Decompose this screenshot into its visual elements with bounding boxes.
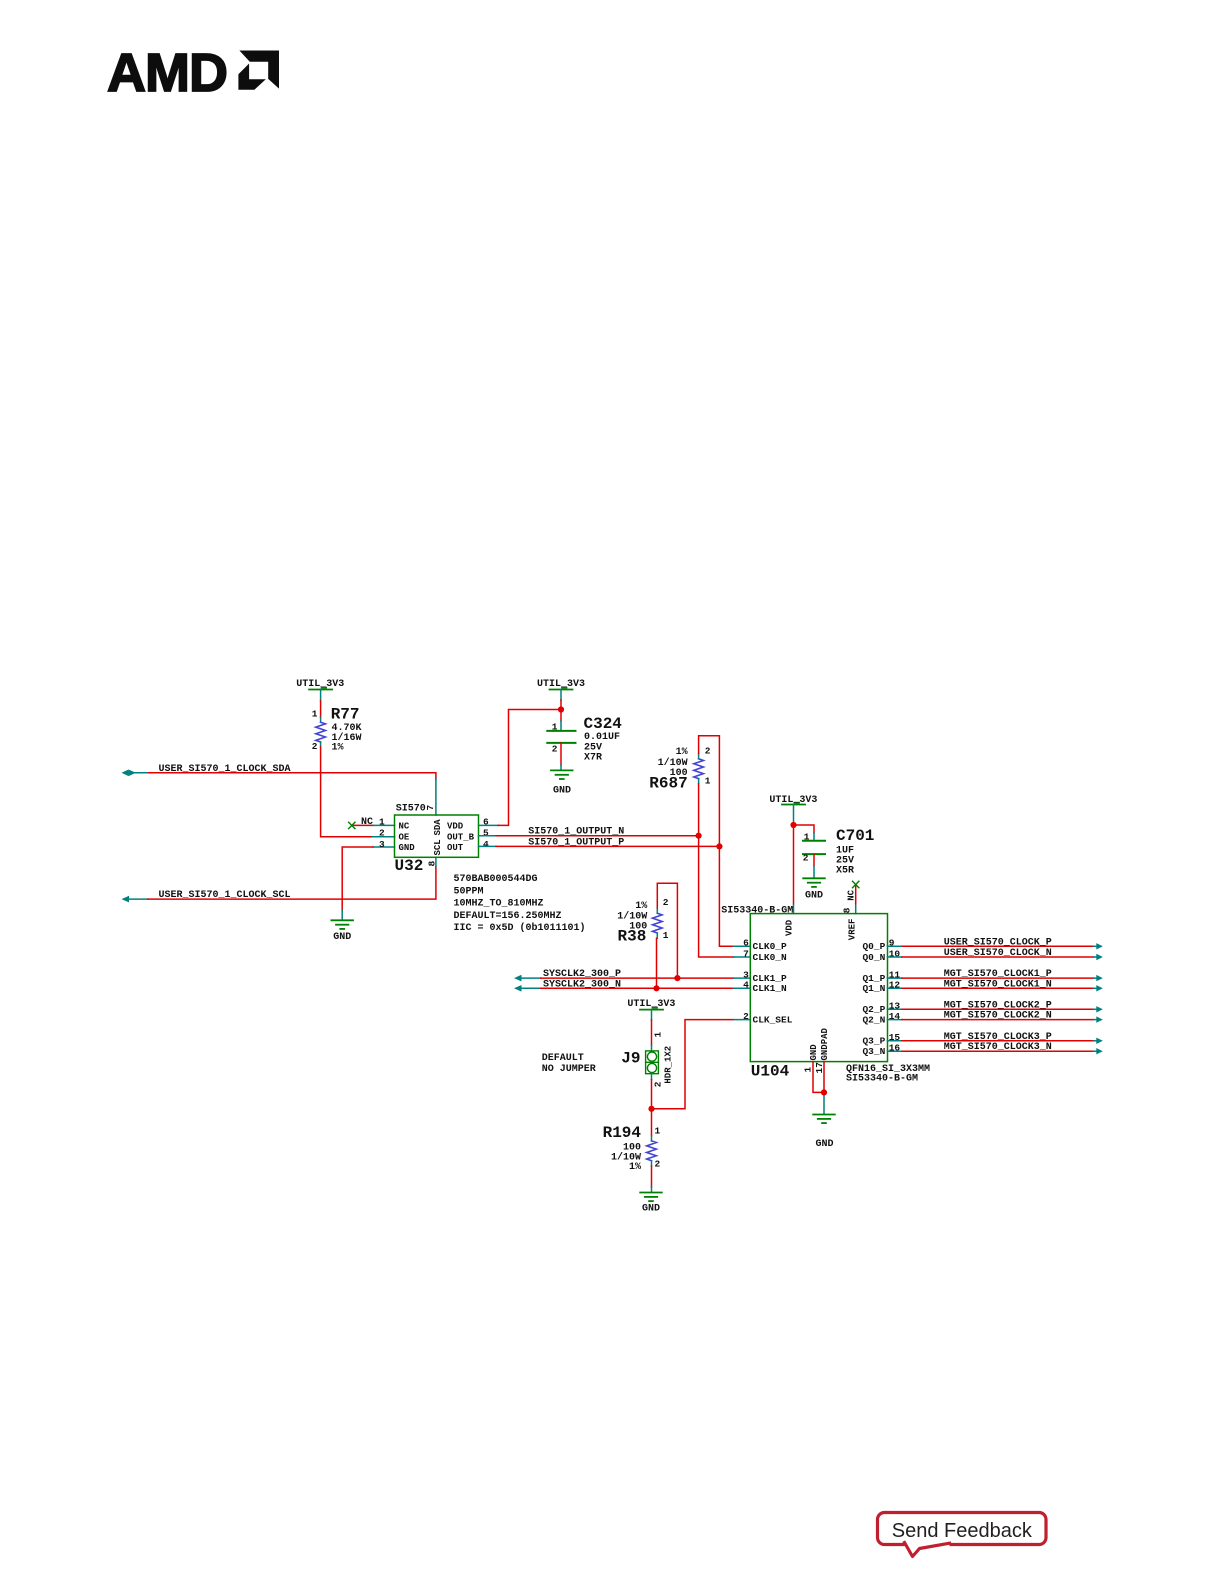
svg-text:SI570_1_OUTPUT_N: SI570_1_OUTPUT_N bbox=[528, 827, 624, 838]
svg-text:SCL: SCL bbox=[433, 839, 443, 855]
svg-text:3: 3 bbox=[379, 839, 385, 850]
wire R77 bottom to OE pin bbox=[321, 742, 395, 837]
svg-text:OUT: OUT bbox=[447, 843, 464, 853]
svg-text:CLK_SEL: CLK_SEL bbox=[753, 1015, 793, 1026]
node MGT_SI570_CLOCK2_P pin13 bbox=[888, 1000, 1103, 1012]
svg-text:UTIL_3V3: UTIL_3V3 bbox=[537, 679, 585, 690]
svg-text:NO JUMPER: NO JUMPER bbox=[542, 1064, 596, 1075]
U32 part info text bbox=[454, 874, 586, 934]
resistor R687 bbox=[649, 746, 710, 793]
svg-text:1: 1 bbox=[653, 1032, 664, 1038]
DEFAULT NO JUMPER note bbox=[542, 1053, 596, 1075]
svg-text:4: 4 bbox=[743, 980, 749, 991]
wire J9 pin2 to CLK_SEL bbox=[652, 1020, 751, 1109]
svg-text:Q3_P: Q3_P bbox=[862, 1036, 885, 1047]
svg-text:MGT_SI570_CLOCK3_N: MGT_SI570_CLOCK3_N bbox=[944, 1042, 1052, 1053]
node MGT_SI570_CLOCK1_N pin12 bbox=[888, 979, 1103, 991]
ground (R194) bbox=[640, 1193, 662, 1215]
svg-text:CLK1_N: CLK1_N bbox=[753, 983, 788, 994]
svg-text:7: 7 bbox=[425, 805, 436, 811]
svg-text:R194: R194 bbox=[603, 1124, 642, 1142]
svg-text:Q0_N: Q0_N bbox=[862, 952, 885, 963]
wire R38 pin1 to SYSCLK2_300_N bbox=[656, 933, 659, 988]
wire C701 bottom bbox=[813, 854, 815, 878]
wire OUTPUT_N to CLK0_N bbox=[699, 836, 751, 957]
op-amp U32 SI570 box bbox=[379, 804, 489, 875]
svg-text:SDA: SDA bbox=[433, 819, 443, 836]
wire C324 bottom bbox=[560, 743, 562, 770]
svg-text:U104: U104 bbox=[751, 1063, 790, 1081]
node junction GND pads bbox=[821, 1089, 827, 1095]
power UTIL_3V3 (C324) bbox=[537, 679, 585, 731]
svg-text:J9: J9 bbox=[621, 1050, 640, 1068]
svg-text:5: 5 bbox=[483, 828, 489, 839]
svg-text:VDD: VDD bbox=[447, 821, 464, 831]
svg-text:X5R: X5R bbox=[836, 866, 854, 877]
svg-text:1: 1 bbox=[655, 1126, 661, 1137]
svg-text:GND: GND bbox=[816, 1139, 834, 1150]
svg-text:GND: GND bbox=[805, 890, 823, 901]
svg-text:HDR_1X2: HDR_1X2 bbox=[664, 1046, 674, 1084]
svg-text:CLK0_P: CLK0_P bbox=[753, 941, 788, 952]
svg-text:Q0_P: Q0_P bbox=[862, 941, 885, 952]
svg-text:OUT_B: OUT_B bbox=[447, 833, 475, 843]
svg-text:MGT_SI570_CLOCK2_N: MGT_SI570_CLOCK2_N bbox=[944, 1011, 1052, 1022]
svg-text:1%: 1% bbox=[635, 901, 647, 912]
svg-text:7: 7 bbox=[743, 948, 749, 959]
svg-text:DEFAULT: DEFAULT bbox=[542, 1053, 584, 1064]
svg-text:2: 2 bbox=[663, 897, 669, 908]
svg-text:UTIL_3V3: UTIL_3V3 bbox=[627, 999, 675, 1010]
svg-text:1%: 1% bbox=[332, 742, 344, 753]
power UTIL_3V3 (J9) bbox=[627, 999, 675, 1051]
svg-text:IIC = 0x5D (0b1011101): IIC = 0x5D (0b1011101) bbox=[454, 922, 586, 934]
svg-text:NC: NC bbox=[847, 889, 857, 900]
node MGT_SI570_CLOCK3_N pin16 bbox=[888, 1042, 1103, 1054]
svg-text:SYSCLK2_300_N: SYSCLK2_300_N bbox=[543, 979, 621, 990]
node junction R38/SYSCLK2_P bbox=[674, 975, 680, 981]
svg-text:1%: 1% bbox=[629, 1162, 641, 1173]
connector J9 HDR_1X2 bbox=[621, 1032, 673, 1088]
node SI570_1_OUTPUT_N bbox=[479, 827, 699, 838]
ground (U104) bbox=[813, 1115, 835, 1151]
ground (C324) bbox=[551, 770, 573, 796]
svg-text:NC: NC bbox=[399, 821, 410, 831]
wire R77 top bbox=[320, 690, 322, 723]
svg-text:2: 2 bbox=[312, 741, 318, 752]
svg-text:UTIL_3V3: UTIL_3V3 bbox=[296, 679, 344, 690]
svg-text:MGT_SI570_CLOCK3_P: MGT_SI570_CLOCK3_P bbox=[944, 1032, 1052, 1043]
svg-text:4: 4 bbox=[483, 839, 489, 850]
svg-text:X7R: X7R bbox=[584, 753, 602, 764]
power UTIL_3V3 (R77) bbox=[296, 679, 344, 690]
svg-text:1: 1 bbox=[804, 832, 810, 843]
svg-text:USER_SI570_CLOCK_P: USER_SI570_CLOCK_P bbox=[944, 937, 1052, 948]
wire U104 GND pads to ground bbox=[813, 1062, 824, 1115]
wire U32 GND pin3 to ground bbox=[342, 847, 394, 920]
svg-text:Q2_N: Q2_N bbox=[862, 1015, 885, 1026]
svg-text:SI570_1_OUTPUT_P: SI570_1_OUTPUT_P bbox=[528, 837, 624, 848]
svg-text:R38: R38 bbox=[617, 928, 646, 946]
svg-text:2: 2 bbox=[705, 746, 711, 757]
node junction C324/VDD bbox=[558, 706, 564, 712]
svg-text:50PPM: 50PPM bbox=[454, 886, 484, 897]
node MGT_SI570_CLOCK2_N pin14 bbox=[888, 1011, 1103, 1023]
svg-text:SI570: SI570 bbox=[396, 804, 426, 815]
node junction R687/OUTPUT_P bbox=[716, 843, 722, 849]
svg-text:GND: GND bbox=[333, 932, 351, 943]
svg-text:1: 1 bbox=[803, 1067, 814, 1073]
svg-text:8: 8 bbox=[842, 907, 853, 913]
svg-text:R687: R687 bbox=[649, 775, 687, 793]
wire U32 VDD pin6 to UTIL_3V3 bbox=[479, 710, 562, 826]
resistor R194 bbox=[603, 1109, 661, 1192]
svg-text:2: 2 bbox=[655, 1159, 661, 1170]
node junction R687/OUTPUT_N bbox=[696, 833, 702, 839]
svg-text:GND: GND bbox=[553, 786, 571, 797]
svg-text:VREF: VREF bbox=[848, 919, 858, 941]
AMD logo bbox=[107, 43, 279, 103]
node USER_SI570_CLOCK_P pin9 bbox=[888, 937, 1103, 949]
svg-text:NC: NC bbox=[361, 817, 373, 828]
wire VREF NC stub bbox=[847, 881, 859, 913]
node SYSCLK2_300_N bbox=[514, 979, 750, 991]
capacitor C324 bbox=[547, 715, 622, 764]
wire R687 pin2 to OUTPUT_P bbox=[699, 736, 720, 847]
svg-text:C701: C701 bbox=[836, 827, 874, 845]
svg-text:1/10W: 1/10W bbox=[658, 757, 688, 769]
IC U104 SI53340-B-GM box bbox=[721, 906, 930, 1085]
capacitor C701 bbox=[803, 827, 875, 877]
svg-text:GND: GND bbox=[399, 843, 416, 853]
node USER_SI570_1_CLOCK_SDA bbox=[122, 764, 291, 776]
svg-text:DEFAULT=156.250MHZ: DEFAULT=156.250MHZ bbox=[454, 911, 562, 922]
wire U104 VDD bbox=[793, 825, 795, 914]
node NC stub pin1 bbox=[349, 817, 395, 829]
svg-text:VDD: VDD bbox=[785, 919, 795, 936]
svg-text:SI53340-B-GM: SI53340-B-GM bbox=[846, 1074, 918, 1085]
svg-text:1: 1 bbox=[379, 816, 385, 827]
wire R38 pin2 to SYSCLK2_300_P bbox=[657, 883, 677, 978]
wire C701 top bbox=[794, 825, 815, 841]
power UTIL_3V3 (C701) bbox=[769, 795, 817, 825]
node junction UTIL_3V3/C701 bbox=[790, 822, 796, 828]
svg-text:1: 1 bbox=[663, 930, 669, 941]
ground (C701) bbox=[803, 878, 825, 901]
svg-text:C324: C324 bbox=[584, 715, 623, 733]
svg-text:R77: R77 bbox=[331, 706, 360, 724]
svg-text:1%: 1% bbox=[676, 747, 688, 758]
svg-text:570BAB000544DG: 570BAB000544DG bbox=[454, 874, 538, 885]
node junction R38/SYSCLK2_N bbox=[653, 985, 659, 991]
svg-text:GND: GND bbox=[642, 1203, 660, 1214]
node SI570_1_OUTPUT_P bbox=[479, 837, 720, 848]
svg-text:2: 2 bbox=[803, 853, 809, 864]
svg-text:1: 1 bbox=[552, 722, 558, 733]
resistor R38 bbox=[617, 897, 668, 946]
wire R687 pin1 to OUTPUT_N bbox=[698, 779, 700, 836]
node MGT_SI570_CLOCK3_P pin15 bbox=[888, 1032, 1103, 1044]
svg-text:U32: U32 bbox=[395, 857, 424, 875]
svg-text:GNDPAD: GNDPAD bbox=[820, 1027, 830, 1060]
svg-text:SI53340-B-GM: SI53340-B-GM bbox=[721, 906, 793, 917]
node SYSCLK2_300_P bbox=[514, 969, 750, 981]
svg-text:USER_SI570_CLOCK_N: USER_SI570_CLOCK_N bbox=[944, 948, 1052, 959]
svg-text:MGT_SI570_CLOCK1_N: MGT_SI570_CLOCK1_N bbox=[944, 979, 1052, 990]
svg-text:AMD: AMD bbox=[107, 43, 227, 103]
wire SCL net bbox=[148, 857, 436, 899]
node USER_SI570_CLOCK_N pin10 bbox=[888, 948, 1103, 960]
svg-text:8: 8 bbox=[427, 861, 438, 867]
resistor R77 bbox=[312, 706, 362, 754]
node USER_SI570_1_CLOCK_SCL bbox=[122, 890, 291, 902]
wire SDA net bbox=[149, 773, 436, 815]
svg-text:Q1_N: Q1_N bbox=[862, 983, 885, 994]
node MGT_SI570_CLOCK1_P pin11 bbox=[888, 969, 1103, 981]
svg-text:Q3_N: Q3_N bbox=[862, 1046, 885, 1057]
svg-text:Send Feedback: Send Feedback bbox=[892, 1520, 1033, 1542]
svg-text:6: 6 bbox=[743, 938, 749, 949]
ground (U32 pin3) bbox=[331, 920, 353, 943]
svg-text:CLK0_N: CLK0_N bbox=[753, 952, 788, 963]
svg-text:OE: OE bbox=[399, 833, 410, 843]
svg-text:10MHZ_TO_810MHZ: 10MHZ_TO_810MHZ bbox=[454, 899, 544, 910]
node junction J9/R194 bbox=[648, 1106, 654, 1112]
svg-text:1: 1 bbox=[705, 776, 711, 787]
svg-text:GND: GND bbox=[809, 1044, 819, 1061]
svg-text:2: 2 bbox=[552, 744, 558, 755]
wire OUTPUT_P to CLK0_P bbox=[719, 846, 750, 946]
svg-text:1: 1 bbox=[312, 709, 318, 720]
Send Feedback button bbox=[878, 1513, 1047, 1557]
svg-text:2: 2 bbox=[653, 1081, 664, 1087]
svg-text:2: 2 bbox=[379, 828, 385, 839]
